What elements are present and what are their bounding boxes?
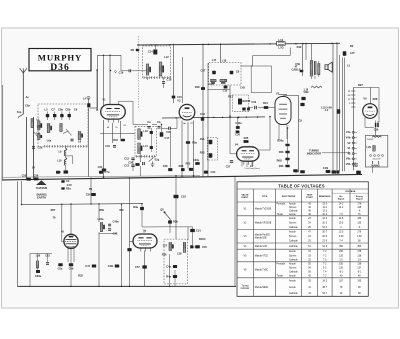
svg-text:EARTH: EARTH: [37, 195, 46, 199]
barretter L29: [373, 146, 375, 152]
resistor R8a: [186, 141, 190, 144]
svg-text:R57: R57: [51, 208, 56, 212]
wire coil box to oscillator: [96, 70, 98, 110]
wire output transformer primary lead: [311, 44, 313, 61]
svg-text:13·2: 13·2: [322, 210, 327, 212]
svg-text:C9: C9: [74, 108, 78, 112]
svg-text:R23: R23: [200, 151, 205, 155]
trimmer capacitor across L13: [150, 131, 153, 134]
capacitor C11 on bus: [99, 171, 103, 174]
capacitor C10b: [56, 171, 60, 174]
svg-text:R10: R10: [113, 138, 118, 142]
coil L9 IF trap: [64, 148, 67, 156]
voltage table: [237, 182, 368, 296]
wire HT return riser: [234, 176, 236, 287]
capacitor C34a: [135, 163, 139, 166]
svg-text:V2: V2: [347, 141, 351, 145]
resistor chain R26a: [285, 144, 289, 147]
svg-text:11·2: 11·2: [322, 207, 327, 209]
wire resistor chain vertical: [287, 128, 289, 144]
coil L14 with core: [138, 143, 141, 154]
svg-text:READINGS: READINGS: [319, 195, 331, 198]
svg-text:C5a: C5a: [38, 146, 43, 150]
capacitor C24 on bus: [102, 169, 106, 172]
wire heater top link: [353, 87, 379, 89]
svg-text:C45: C45: [202, 245, 207, 249]
trimmer capacitor C21: [230, 71, 234, 74]
wire audio coupling: [170, 226, 193, 228]
capacitor C53: [301, 97, 305, 100]
svg-text:R59: R59: [99, 208, 104, 212]
svg-text:V6b: V6b: [346, 162, 351, 166]
resistor R18: [201, 87, 205, 90]
capacitor C31: [190, 229, 195, 232]
wire V3 pins down: [278, 125, 280, 141]
output transformer T1 primary: [310, 61, 313, 77]
svg-text:CHASSIS: CHASSIS: [36, 186, 48, 190]
wire C54 vertical: [90, 179, 92, 204]
label V1 pins: [107, 125, 127, 129]
svg-text:C54: C54: [86, 193, 91, 197]
wire dashed gang link: [138, 36, 140, 108]
junction dots bottom bus: [70, 286, 72, 288]
svg-text:C4B: C4B: [108, 264, 113, 268]
svg-text:20·9: 20·9: [322, 236, 327, 238]
svg-text:L6a: L6a: [47, 138, 52, 142]
svg-text:L10: L10: [57, 159, 62, 163]
svg-text:V4a: V4a: [346, 130, 351, 134]
heater chain wire: [352, 88, 354, 171]
capacitor C59: [69, 263, 73, 266]
capacitor C15: [172, 96, 176, 99]
trimmer capacitor T3: [60, 114, 63, 117]
svg-text:13·2: 13·2: [322, 204, 327, 206]
terminal ticks under IFT1 box: [137, 155, 155, 158]
wire lower vertical x61: [61, 204, 63, 237]
svg-text:R3b: R3b: [173, 220, 178, 224]
svg-text:C57: C57: [135, 265, 140, 269]
svg-text:Mazda VT52: Mazda VT52: [255, 255, 269, 257]
wire det out: [248, 107, 253, 109]
svg-text:C32: C32: [181, 195, 186, 199]
fuse LFT: [343, 51, 347, 55]
capacitor C47: [92, 265, 96, 268]
resistor R28: [181, 168, 185, 171]
svg-text:Strong: Strong: [356, 195, 364, 198]
coil L26: [36, 261, 38, 268]
capacitor C49a: [108, 224, 111, 226]
svg-text:R38: R38: [245, 99, 250, 103]
svg-text:C60a: C60a: [35, 274, 42, 278]
svg-text:TABLE OF VOLTAGES: TABLE OF VOLTAGES: [278, 184, 325, 189]
switch Q5 on-off: [164, 212, 171, 220]
wire transformer bottom resistor: [311, 86, 322, 88]
resistor R15: [209, 140, 213, 144]
capacitor C1N: [326, 170, 331, 173]
wire tuning valve grid from AVC: [70, 204, 72, 234]
pick-up connector box: [251, 66, 271, 93]
svg-text:Cathode: Cathode: [289, 259, 298, 262]
resistor R60: [285, 158, 289, 161]
svg-text:Ae: Ae: [26, 95, 30, 99]
capacitor C9c: [293, 169, 297, 172]
resistor R24: [264, 106, 269, 109]
capacitor C4 bar: [143, 162, 145, 165]
valve V1: [101, 105, 126, 123]
wire L4 drop to chassis: [87, 108, 89, 177]
wire V1 pins down: [103, 120, 105, 178]
wire mains box to chassis bus: [372, 167, 374, 173]
capacitor C55: [27, 178, 31, 181]
svg-text:C34: C34: [128, 161, 133, 165]
svg-text:C20: C20: [209, 82, 214, 86]
capacitor C34 left on bus: [204, 171, 208, 174]
svg-text:C1c: C1c: [223, 89, 228, 93]
wire IFT1 internal: [150, 128, 152, 131]
svg-text:Mazda TV6C: Mazda TV6C: [255, 270, 269, 272]
svg-text:D36: D36: [50, 62, 70, 73]
coil L17 core: [211, 82, 215, 83]
svg-text:21·9: 21·9: [322, 241, 327, 243]
capacitor C32: [174, 195, 179, 198]
svg-text:C28: C28: [163, 164, 168, 168]
svg-text:LFT: LFT: [350, 51, 355, 55]
capacitor C19 at V2: [201, 117, 204, 120]
wire lower vertical x17: [17, 182, 19, 287]
wire V2 grid link: [162, 127, 169, 129]
wire lower vertical x121: [121, 204, 123, 286]
resistor R6: [136, 49, 139, 51]
svg-text:Q5: Q5: [160, 208, 164, 212]
svg-text:C7: C7: [51, 108, 55, 112]
svg-text:C34: C34: [211, 170, 216, 174]
svg-text:VOLTAGE: VOLTAGE: [345, 190, 356, 193]
svg-text:L29: L29: [367, 145, 372, 149]
svg-text:Indicator: Indicator: [241, 287, 250, 290]
trimmer capacitor T4: [68, 114, 71, 117]
svg-text:C5a: C5a: [58, 267, 63, 271]
svg-text:Screen: Screen: [289, 254, 297, 257]
svg-text:C4a: C4a: [166, 264, 171, 268]
svg-text:L24a: L24a: [98, 217, 104, 221]
svg-text:C17: C17: [165, 136, 170, 140]
wire LFT pair down: [341, 58, 343, 172]
coil L13 with core: [138, 129, 141, 140]
IF transformer IFT1 dashed box: [135, 126, 157, 156]
AF coupling dashed box: [207, 138, 217, 161]
svg-text:R6I: R6I: [119, 208, 123, 212]
capacitor C8b: [224, 86, 228, 89]
capacitor C61: [46, 263, 49, 265]
svg-text:38·7: 38·7: [322, 287, 327, 289]
terminal ticks under oscillator box: [144, 76, 170, 79]
capacitor C4a: [173, 265, 177, 268]
svg-text:Pentode: Pentode: [277, 263, 286, 266]
wire tuning valve pins down: [67, 252, 69, 262]
svg-text:Anode: Anode: [289, 250, 296, 253]
svg-text:Mazda ME41: Mazda ME41: [255, 287, 269, 289]
valve V2: [179, 104, 195, 120]
coil L2: [38, 121, 40, 130]
svg-text:C1N: C1N: [323, 166, 328, 170]
svg-text:-8·1: -8·1: [357, 272, 362, 274]
capacitor C48: [115, 265, 119, 268]
capacitor C5a: [32, 147, 35, 149]
wire to reservoir cap: [378, 88, 380, 123]
mains unit box: [365, 136, 388, 168]
capacitor C10 cathode: [113, 146, 116, 148]
svg-text:2·60: 2·60: [339, 236, 344, 238]
svg-text:C6T: C6T: [201, 69, 206, 73]
svg-text:C59: C59: [69, 267, 74, 271]
mains dropper resistor: [373, 136, 382, 138]
svg-text:Triode: Triode: [277, 213, 284, 216]
svg-text:12·5: 12·5: [339, 232, 344, 234]
svg-text:L26: L26: [36, 254, 41, 258]
capacitor C40 coupling: [169, 127, 171, 130]
wire L4 riser: [97, 55, 99, 110]
svg-text:TEST: TEST: [307, 194, 313, 196]
svg-text:C55: C55: [22, 174, 27, 178]
wire HT negative bottom bus: [18, 285, 237, 287]
coil L18 core: [221, 82, 226, 83]
svg-text:Signal: Signal: [338, 199, 345, 201]
svg-text:Signal: Signal: [356, 199, 363, 201]
resistor R17 dashed box: [233, 95, 249, 111]
capacitor C54: [91, 193, 96, 196]
wire AVC to IFT: [100, 133, 135, 135]
wire heater bus verticals: [332, 43, 334, 171]
svg-text:C34: C34: [235, 133, 240, 137]
filter L17 L18 dashed box: [209, 63, 241, 86]
svg-text:54·2: 54·2: [322, 246, 327, 248]
valve V5: [133, 234, 157, 252]
wire C16 to coils: [121, 70, 128, 72]
wire screen-grid bus: [162, 117, 265, 118]
capacitor C18: [162, 82, 165, 84]
wire box to screen bus: [229, 85, 231, 116]
heater winding V4a: [352, 131, 355, 133]
svg-text:12·2: 12·2: [322, 218, 327, 220]
voltage selector taps: [370, 155, 384, 157]
svg-text:R8a: R8a: [192, 141, 197, 145]
svg-text:V6a: V6a: [346, 157, 351, 161]
switch S1a aerial selector: [19, 114, 24, 118]
svg-text:POINT: POINT: [306, 197, 313, 199]
capacitor C10a: [64, 170, 69, 173]
svg-text:R18: R18: [195, 85, 200, 89]
capacitor C22: [189, 168, 193, 171]
label V2 pins: [183, 122, 193, 125]
svg-text:V6: V6: [363, 97, 367, 101]
svg-text:V1: V1: [102, 98, 106, 102]
resistor R38: [247, 108, 250, 111]
switch S1c: [63, 129, 72, 136]
coil L11 with core: [146, 64, 149, 75]
wire oscillator grid line: [98, 54, 122, 56]
svg-text:Pentode: Pentode: [277, 203, 286, 206]
svg-text:Anode: Anode: [289, 263, 296, 266]
capacitor group on bus right: [332, 170, 336, 173]
coil L27 winding: [169, 242, 172, 250]
svg-text:Anode: Anode: [289, 275, 296, 278]
wire switch link: [141, 204, 143, 207]
svg-text:R26: R26: [279, 164, 284, 168]
capacitor D40: [127, 248, 131, 251]
resistor taps on heater dropper: [351, 91, 355, 107]
svg-text:Anode: Anode: [289, 213, 296, 216]
wire oscillator right vertical: [173, 44, 175, 103]
wire V6 to mains box: [375, 121, 377, 123]
wire tuning valve top lead: [61, 237, 63, 242]
wire chassis bus: [2, 174, 362, 180]
svg-text:R25: R25: [244, 136, 249, 140]
svg-text:C47: C47: [85, 264, 90, 268]
valve V4: [237, 147, 259, 165]
svg-text:R26: R26: [279, 150, 284, 154]
svg-text:R26a: R26a: [277, 139, 284, 143]
svg-text:Mazda 62B: Mazda 62B: [255, 237, 267, 239]
band coil assembly dashed box: [38, 104, 88, 147]
wire lower link horiz: [142, 226, 170, 228]
capacitor C28: [168, 168, 172, 171]
svg-text:1.7Ω: 1.7Ω: [278, 45, 284, 49]
svg-text:C61: C61: [45, 254, 50, 258]
svg-text:R5a: R5a: [66, 187, 71, 191]
capacitor C56: [34, 178, 38, 181]
resistor R25: [244, 140, 249, 143]
svg-text:Mazda VP23GB: Mazda VP23GB: [255, 222, 272, 224]
svg-text:54·2: 54·2: [322, 227, 327, 229]
svg-text:1.2: 1.2: [325, 108, 329, 112]
svg-text:Anode: Anode: [289, 231, 296, 234]
svg-text:C30: C30: [251, 100, 256, 104]
svg-text:VALVE: VALVE: [242, 193, 250, 196]
resistor R10: [121, 139, 125, 142]
svg-text:C42: C42: [113, 232, 118, 236]
svg-text:Triode: Triode: [277, 275, 284, 278]
capacitor C17: [160, 132, 164, 136]
svg-text:1·62: 1·62: [357, 236, 362, 238]
svg-text:R27: R27: [358, 83, 363, 87]
svg-text:C10: C10: [105, 144, 110, 148]
svg-text:Cb: Cb: [157, 120, 161, 124]
svg-text:IDENT.: IDENT.: [242, 197, 249, 199]
ground chassis symbol: [37, 181, 46, 185]
svg-text:C6a: C6a: [25, 104, 30, 108]
capacitor C40a: [242, 108, 245, 111]
inductor L19 in HT bus: [277, 38, 286, 50]
svg-text:16A: 16A: [200, 137, 205, 141]
svg-text:Screen: Screen: [289, 206, 297, 209]
resistor R17: [238, 99, 242, 105]
wire C31 vertical: [192, 227, 194, 229]
wire speaker links: [318, 61, 320, 64]
svg-text:V2: V2: [177, 99, 181, 103]
wire tuner left vertical: [26, 117, 28, 180]
trimmer capacitor T1: [46, 114, 49, 117]
svg-text:12·5: 12·5: [339, 218, 344, 220]
svg-text:V1: V1: [347, 146, 351, 150]
svg-text:R2: R2: [350, 44, 354, 48]
coil L10: [64, 158, 67, 166]
svg-text:10·5: 10·5: [339, 222, 344, 224]
capacitor C34 det: [236, 131, 240, 134]
capacitor C3: [61, 180, 64, 182]
trimmer capacitor T2: [53, 114, 56, 117]
svg-text:Ca: Ca: [147, 120, 151, 124]
loudspeaker: [325, 62, 332, 72]
svg-text:200-250V: 200-250V: [372, 159, 381, 161]
svg-text:7.5m(5mm)(4mm): 7.5m(5mm)(4mm): [244, 168, 260, 170]
capacitor C1a coupling: [148, 126, 151, 128]
wire grid jog down: [120, 55, 122, 71]
svg-text:C8: C8: [236, 70, 240, 74]
wire L17 box vertical: [220, 44, 222, 62]
svg-text:C42a: C42a: [235, 121, 242, 125]
heater winding V6b: [352, 163, 355, 165]
capacitor C14 padder: [153, 50, 157, 55]
svg-text:C15: C15: [177, 95, 182, 99]
wire mains neutral run: [2, 176, 200, 178]
capacitor C12: [131, 158, 134, 160]
wire V3 anode feed: [284, 94, 299, 96]
valve V6: [363, 104, 378, 119]
svg-text:MURPHY: MURPHY: [38, 52, 83, 62]
switch S1g: [149, 158, 154, 162]
svg-text:52·7: 52·7: [322, 293, 327, 295]
svg-text:Screen: Screen: [289, 221, 297, 224]
choke L15 core: [337, 109, 340, 114]
svg-text:Q: Q: [114, 70, 116, 74]
wire V4 pins: [241, 161, 243, 167]
antenna: [20, 68, 27, 73]
wire trap leads: [65, 146, 67, 148]
svg-text:R17: R17: [228, 95, 233, 99]
heater winding V3: [352, 153, 355, 155]
wire V5 grid entry: [130, 241, 134, 243]
svg-text:Mazda UU5: Mazda UU5: [255, 246, 268, 248]
capacitor C1b coupling: [158, 126, 161, 128]
wire output verticals: [302, 44, 304, 76]
capacitor C13: [131, 165, 134, 167]
resistor R26b: [285, 165, 289, 168]
resistor R3b: [168, 220, 172, 223]
resistor R5a: [61, 187, 64, 189]
svg-text:L19: L19: [279, 38, 284, 42]
capacitor C16: [129, 69, 131, 72]
svg-text:C56: C56: [34, 173, 39, 177]
capacitor C60a: [36, 270, 40, 273]
svg-text:C49a: C49a: [113, 220, 120, 224]
wire antenna lead: [22, 73, 24, 114]
heater winding V4b: [352, 137, 355, 139]
tuning indicator valve: [64, 234, 78, 252]
svg-text:R28: R28: [179, 164, 184, 168]
resistor R26: [285, 151, 289, 154]
wire C17 lead: [161, 124, 163, 132]
resistor R16: [209, 153, 213, 157]
heater winding V2: [352, 142, 355, 144]
wire left edge input lead: [2, 85, 4, 180]
svg-text:C16: C16: [119, 71, 124, 75]
svg-text:20·2: 20·2: [322, 222, 327, 224]
svg-text:R32: R32: [78, 274, 83, 278]
svg-text:V3: V3: [276, 92, 280, 96]
coil L7: [60, 124, 62, 132]
capacitor C34 right: [300, 170, 305, 173]
output transformer dashed box: [164, 239, 188, 284]
